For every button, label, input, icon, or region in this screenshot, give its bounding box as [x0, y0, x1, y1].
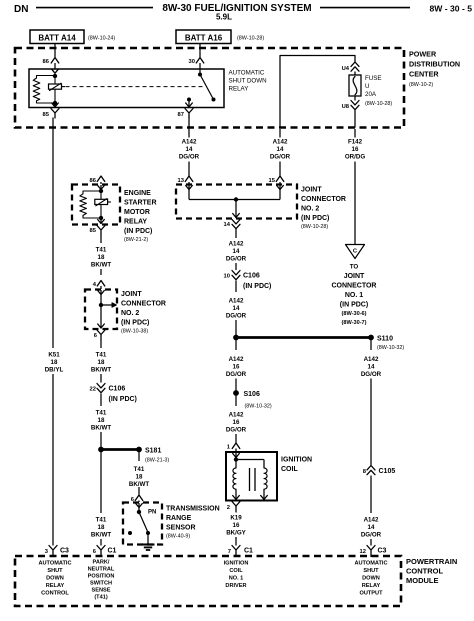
- svg-text:POWERTRAIN: POWERTRAIN: [406, 557, 457, 566]
- JC2L wire to pin 6: [100, 305, 102, 329]
- svg-text:C1: C1: [244, 548, 253, 555]
- svg-text:S106: S106: [244, 391, 260, 398]
- svg-text:18: 18: [98, 254, 105, 261]
- svg-text:A142: A142: [229, 356, 244, 363]
- svg-text:16: 16: [233, 364, 240, 371]
- coil core: [249, 468, 251, 491]
- ESM relay resistor branch: [80, 191, 101, 218]
- TRS wire to ground: [147, 533, 149, 544]
- power feed BATT A14: [30, 30, 84, 44]
- svg-text:RANGE: RANGE: [166, 515, 192, 522]
- JC2L pin 4 entry arrow: [98, 291, 105, 295]
- svg-text:22: 22: [90, 387, 96, 393]
- svg-text:(IN PDC): (IN PDC): [301, 215, 329, 222]
- svg-text:18: 18: [98, 417, 105, 424]
- svg-text:CONNECTOR: CONNECTOR: [301, 196, 346, 203]
- svg-text:A142: A142: [364, 356, 379, 363]
- coil primary node: [234, 457, 238, 461]
- wire T41 18 BK/WT ESM to JC2: [100, 235, 102, 243]
- svg-text:MODULE: MODULE: [406, 576, 439, 585]
- svg-text:1: 1: [227, 445, 231, 451]
- wire node A142 to fuse U: [280, 56, 355, 128]
- svg-text:20A: 20A: [365, 91, 377, 98]
- svg-text:(T41): (T41): [94, 595, 108, 601]
- svg-text:U: U: [365, 83, 369, 90]
- svg-text:8W-30 FUEL/IGNITION SYSTEM: 8W-30 FUEL/IGNITION SYSTEM: [162, 3, 311, 14]
- svg-text:TO: TO: [350, 264, 359, 271]
- svg-text:T41: T41: [96, 352, 107, 359]
- wire A142 16 DG/OR S110 to S106: [235, 340, 237, 350]
- TRS contact open: [128, 531, 132, 535]
- svg-text:U4: U4: [342, 66, 350, 72]
- svg-text:(8W-10-24): (8W-10-24): [88, 36, 115, 42]
- svg-text:14: 14: [368, 364, 375, 371]
- svg-text:(8W-10-32): (8W-10-32): [377, 345, 404, 351]
- TRS switch blade: [139, 512, 148, 533]
- svg-text:CONTROL: CONTROL: [41, 591, 69, 597]
- relay coil wire through: [54, 76, 56, 84]
- ESM coil node top: [99, 189, 103, 193]
- svg-text:POSITION: POSITION: [88, 574, 115, 580]
- svg-text:DB/YL: DB/YL: [45, 367, 64, 374]
- wire T41 18 BK/WT S181 to TRS: [138, 452, 140, 461]
- svg-text:14: 14: [277, 146, 284, 153]
- svg-text:BK/WT: BK/WT: [91, 262, 111, 269]
- svg-text:U8: U8: [342, 104, 350, 110]
- svg-text:CONTROL: CONTROL: [406, 567, 443, 576]
- svg-text:(IN PDC): (IN PDC): [121, 320, 149, 327]
- svg-text:87: 87: [178, 112, 184, 118]
- svg-text:SENSE: SENSE: [92, 588, 111, 594]
- automatic shut down relay K1 box: [29, 69, 224, 108]
- svg-text:85: 85: [43, 112, 50, 118]
- svg-text:(8W-30-6): (8W-30-6): [341, 311, 366, 317]
- svg-text:A142: A142: [273, 139, 288, 146]
- svg-text:CONNECTOR: CONNECTOR: [332, 283, 377, 290]
- wire K51 18 DB/YL from ASD pin 85 to PCM pin 3: [52, 118, 54, 349]
- wire A142 14 DG/OR C106 to S110: [235, 281, 237, 293]
- svg-text:SENSOR: SENSOR: [166, 525, 196, 532]
- svg-text:TRANSMISSION: TRANSMISSION: [166, 506, 220, 513]
- relay switch pivot: [198, 73, 202, 77]
- JC2T wire to pin 14: [235, 200, 237, 219]
- JC2T bus node: [234, 197, 238, 201]
- ESM pin 86 entry arrow: [98, 186, 105, 190]
- ground G: [142, 543, 155, 545]
- svg-text:A142: A142: [229, 241, 244, 248]
- svg-text:(8W-40-9): (8W-40-9): [166, 534, 190, 540]
- svg-text:T41: T41: [134, 466, 145, 473]
- svg-text:AUTOMATIC: AUTOMATIC: [229, 70, 265, 77]
- svg-text:DG/OR: DG/OR: [226, 371, 247, 378]
- JC2L bus arrow: [101, 304, 112, 306]
- svg-text:14: 14: [186, 146, 193, 153]
- svg-text:2: 2: [227, 505, 230, 511]
- svg-text:(8W-10-28): (8W-10-28): [237, 36, 264, 42]
- relay switch blade: [200, 75, 214, 100]
- transmission range sensor box: [123, 503, 162, 545]
- svg-text:DG/OR: DG/OR: [270, 154, 291, 161]
- svg-text:CENTER: CENTER: [409, 70, 439, 79]
- svg-text:IGNITION: IGNITION: [281, 457, 312, 464]
- svg-text:POWER: POWER: [409, 50, 437, 59]
- svg-text:C: C: [353, 249, 358, 255]
- relay coil winding symbol: [49, 84, 62, 89]
- svg-text:18: 18: [98, 524, 105, 531]
- ESM relay coil winding symbol: [95, 199, 108, 204]
- svg-text:13: 13: [178, 178, 185, 184]
- svg-text:FUSE: FUSE: [365, 75, 382, 82]
- svg-text:T41: T41: [96, 247, 107, 254]
- svg-text:16: 16: [233, 522, 240, 529]
- svg-text:86: 86: [43, 59, 50, 65]
- svg-text:8: 8: [363, 469, 367, 475]
- svg-text:A142: A142: [364, 517, 379, 524]
- powertrain control module box: [15, 556, 401, 606]
- svg-text:OR/DG: OR/DG: [345, 154, 365, 161]
- svg-text:BK/WT: BK/WT: [91, 367, 111, 374]
- pin 86 entry arrow: [52, 69, 59, 73]
- svg-text:12: 12: [360, 549, 366, 555]
- svg-text:DG/OR: DG/OR: [226, 313, 247, 320]
- svg-text:10: 10: [224, 274, 230, 280]
- svg-text:6: 6: [94, 333, 98, 339]
- wire A142 14 DG/OR S110 to C105: [370, 340, 372, 350]
- TRS switch common: [137, 510, 141, 514]
- svg-text:(8W-21-2): (8W-21-2): [124, 237, 148, 243]
- primary winding: [235, 460, 237, 469]
- svg-text:6: 6: [93, 549, 97, 555]
- svg-text:AUTOMATIC: AUTOMATIC: [354, 561, 387, 567]
- svg-text:NO. 1: NO. 1: [229, 576, 244, 582]
- svg-text:NEUTRAL: NEUTRAL: [88, 567, 115, 573]
- svg-text:A142: A142: [229, 412, 244, 419]
- svg-text:C106: C106: [243, 273, 260, 280]
- svg-text:JOINT: JOINT: [344, 273, 365, 280]
- svg-text:16: 16: [233, 419, 240, 426]
- svg-text:T41: T41: [96, 410, 107, 417]
- svg-text:A142: A142: [182, 139, 197, 146]
- svg-text:SWITCH: SWITCH: [90, 581, 112, 587]
- svg-text:8W - 30 - 5: 8W - 30 - 5: [429, 4, 472, 14]
- svg-text:ENGINE: ENGINE: [124, 190, 151, 197]
- svg-text:7: 7: [228, 549, 231, 555]
- off-page connector C triangle: [346, 245, 365, 259]
- svg-text:DG/OR: DG/OR: [226, 427, 247, 434]
- power feed BATT A16: [176, 30, 231, 44]
- relay coil resistor branch: [33, 76, 55, 104]
- svg-text:3: 3: [45, 549, 49, 555]
- svg-text:DISTRIBUTION: DISTRIBUTION: [409, 60, 460, 69]
- svg-text:JOINT: JOINT: [121, 291, 142, 298]
- svg-text:K19: K19: [230, 515, 242, 522]
- power distribution center box: [15, 48, 404, 128]
- wire T41 18 BK/WT S181 to PCM: [100, 452, 102, 513]
- JC2L pin 6 exit arrow: [98, 324, 105, 328]
- splice S110: [236, 336, 371, 339]
- svg-text:RELAY: RELAY: [124, 219, 147, 226]
- svg-text:MOTOR: MOTOR: [124, 209, 150, 216]
- svg-text:(8W-21-3): (8W-21-3): [145, 458, 169, 464]
- svg-text:C106: C106: [109, 386, 126, 393]
- svg-text:AUTOMATIC: AUTOMATIC: [38, 561, 71, 567]
- svg-text:T41: T41: [96, 517, 107, 524]
- svg-text:NO. 2: NO. 2: [301, 206, 319, 213]
- svg-text:DG/OR: DG/OR: [361, 532, 382, 539]
- svg-text:30: 30: [189, 59, 195, 65]
- wire BATT A14 to pin 86: [54, 44, 56, 58]
- svg-text:DOWN: DOWN: [362, 576, 380, 582]
- svg-text:5.9L: 5.9L: [216, 13, 232, 22]
- svg-text:A142: A142: [229, 298, 244, 305]
- relay coil node bottom: [53, 101, 57, 105]
- wire T41 18 BK/WT C106 to S181: [100, 394, 102, 407]
- svg-text:JOINT: JOINT: [301, 187, 322, 194]
- coil pin 1 entry arrow: [233, 454, 240, 458]
- svg-text:BK/WT: BK/WT: [91, 532, 111, 539]
- svg-text:PARK/: PARK/: [93, 560, 110, 566]
- svg-text:F142: F142: [348, 139, 363, 146]
- svg-text:CONNECTOR: CONNECTOR: [121, 301, 166, 308]
- svg-text:SHUT: SHUT: [47, 568, 63, 574]
- joint connector no. 2 top box: [176, 185, 297, 219]
- svg-text:(IN PDC): (IN PDC): [124, 228, 152, 235]
- splice S181: [101, 448, 139, 451]
- svg-text:K51: K51: [48, 352, 60, 359]
- wire A142 16 DG/OR S106 to ignition coil: [235, 393, 237, 406]
- relay contact 87: [187, 98, 191, 102]
- svg-text:DG/OR: DG/OR: [361, 371, 382, 378]
- wire A142 14 DG/OR C105 to PCM: [370, 476, 372, 514]
- svg-text:(8W-10-38): (8W-10-38): [121, 329, 148, 335]
- svg-text:PN: PN: [148, 510, 156, 516]
- svg-text:NO. 2: NO. 2: [121, 310, 139, 317]
- TRS contact PN: [146, 531, 150, 535]
- JC2T bus: [189, 199, 280, 201]
- svg-text:(IN PDC): (IN PDC): [109, 396, 137, 403]
- svg-text:4: 4: [93, 282, 97, 288]
- svg-text:NO. 1: NO. 1: [345, 292, 363, 299]
- svg-text:86: 86: [90, 178, 97, 184]
- wire T41 18 BK/WT JC2 to C106: [100, 340, 102, 349]
- fuse U 20A: [349, 75, 361, 96]
- svg-text:S110: S110: [377, 336, 393, 343]
- svg-text:14: 14: [233, 305, 240, 312]
- coil jumper to secondary: [236, 459, 264, 461]
- svg-text:SHUT DOWN: SHUT DOWN: [229, 78, 267, 85]
- svg-text:RELAY: RELAY: [362, 583, 381, 589]
- svg-text:C1: C1: [108, 548, 117, 555]
- ESM pin 85 exit arrow: [98, 220, 105, 224]
- header rule right: [320, 7, 410, 9]
- svg-text:DOWN: DOWN: [46, 576, 64, 582]
- svg-text:C3: C3: [378, 548, 387, 555]
- svg-text:C3: C3: [60, 548, 69, 555]
- svg-text:DG/OR: DG/OR: [179, 154, 200, 161]
- svg-text:RELAY: RELAY: [46, 583, 65, 589]
- wire F142 16 OR/DG: [354, 129, 356, 138]
- svg-text:(IN PDC): (IN PDC): [340, 302, 368, 309]
- svg-text:(8W-10-32): (8W-10-32): [245, 404, 272, 410]
- svg-text:BK/WT: BK/WT: [129, 481, 149, 488]
- JC2T pin 14 exit arrow: [233, 214, 240, 218]
- svg-text:STARTER: STARTER: [124, 200, 157, 207]
- svg-text:IGNITION: IGNITION: [224, 561, 249, 567]
- header rule left: [36, 7, 153, 9]
- svg-text:DN: DN: [14, 4, 28, 15]
- wire K19 16 BK/GY: [235, 511, 237, 513]
- pin 85 exit arrow: [52, 103, 59, 107]
- svg-text:COIL: COIL: [229, 568, 243, 574]
- svg-text:(IN PDC): (IN PDC): [243, 283, 271, 290]
- pin 87 exit arrow: [186, 103, 193, 107]
- wire A142 14 DG/OR JC2 to C106: [235, 229, 237, 238]
- svg-text:C105: C105: [379, 468, 396, 475]
- svg-text:BK/GY: BK/GY: [226, 530, 246, 537]
- svg-text:(8W-10-28): (8W-10-28): [365, 101, 392, 107]
- ESM coil node bottom: [99, 216, 103, 220]
- svg-text:(8W-30-7): (8W-30-7): [341, 320, 366, 326]
- JC2T pin 13 entry arrow: [186, 186, 193, 190]
- ESM coil wire through: [100, 191, 102, 199]
- svg-text:18: 18: [98, 359, 105, 366]
- wire A142 14 DG/OR from fuse node: [279, 129, 281, 138]
- splice S106: [233, 390, 239, 396]
- relay coil node top: [53, 74, 57, 78]
- JC2L bus node: [99, 303, 103, 307]
- svg-text:14: 14: [233, 248, 240, 255]
- secondary winding: [264, 468, 267, 489]
- svg-text:85: 85: [90, 228, 97, 234]
- TRS pin 6 entry arrow: [136, 504, 143, 508]
- engine starter motor relay box: [72, 185, 120, 225]
- svg-text:OUTPUT: OUTPUT: [360, 591, 384, 597]
- svg-text:BATT A16: BATT A16: [185, 34, 223, 43]
- svg-text:16: 16: [352, 146, 359, 153]
- svg-text:18: 18: [51, 359, 58, 366]
- svg-text:14: 14: [224, 222, 231, 228]
- relay switch pin 30 wire: [199, 69, 201, 75]
- svg-text:DG/OR: DG/OR: [226, 256, 247, 263]
- svg-text:(8W-10-2): (8W-10-2): [409, 82, 433, 88]
- svg-text:RELAY: RELAY: [229, 86, 249, 93]
- wire BATT A16 to pin 30: [199, 44, 201, 58]
- wire fuse drop: [354, 56, 356, 63]
- svg-text:BATT A14: BATT A14: [38, 34, 76, 43]
- svg-text:(8W-10-28): (8W-10-28): [301, 224, 328, 230]
- ignition coil box: [226, 452, 277, 501]
- mechanical link dashed: [66, 86, 206, 88]
- svg-text:BK/WT: BK/WT: [91, 425, 111, 432]
- JC2T pin 15 entry arrow: [277, 186, 284, 190]
- svg-text:S181: S181: [145, 448, 161, 455]
- svg-text:DRIVER: DRIVER: [225, 583, 246, 589]
- joint connector no. 2 left box: [85, 290, 117, 330]
- svg-text:15: 15: [269, 178, 276, 184]
- svg-text:SHUT: SHUT: [363, 568, 379, 574]
- svg-text:COIL: COIL: [281, 466, 298, 473]
- svg-text:18: 18: [136, 474, 143, 481]
- svg-text:14: 14: [368, 524, 375, 531]
- wire A142 14 DG/OR from pin 87: [188, 118, 190, 138]
